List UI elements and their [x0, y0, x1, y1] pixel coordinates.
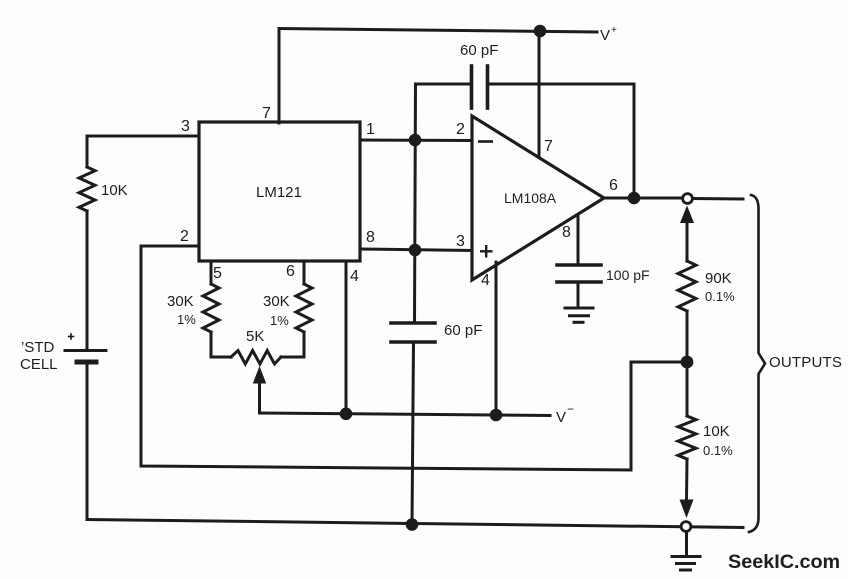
label V- — [556, 402, 574, 426]
wire LM121 pin5 lead — [210, 261, 213, 284]
arrow up (90K top) — [680, 206, 694, 262]
wire op-amp U2 pin4 — [495, 262, 498, 415]
svg-text:60 pF: 60 pF — [444, 322, 482, 339]
wire LM121 pin1 to op-amp inverting input — [360, 139, 472, 143]
svg-text:8: 8 — [366, 229, 375, 246]
op-amp plus sign — [480, 245, 493, 258]
wire LM121 pin6 lead — [303, 261, 306, 284]
svg-text:5K: 5K — [246, 328, 264, 345]
wire divider node to 10K — [686, 362, 689, 416]
arrow down (10K bottom) — [680, 500, 694, 519]
svg-text:10K: 10K — [101, 182, 128, 199]
svg-text:6: 6 — [609, 177, 618, 194]
wire LM121 pin3 to 10K — [87, 135, 199, 138]
svg-text:1%: 1% — [177, 312, 196, 327]
node pin1 junction dot — [409, 134, 422, 147]
resistor 10K 0.1% — [678, 416, 696, 459]
svg-text:100 pF: 100 pF — [606, 267, 650, 283]
resistor 90K 0.1% — [678, 261, 696, 311]
brace OUTPUTS — [749, 195, 765, 532]
svg-text:2: 2 — [180, 228, 189, 245]
svg-text:−: − — [567, 402, 574, 416]
svg-text:6: 6 — [286, 263, 295, 280]
preamp U1 LM121 body — [199, 122, 360, 261]
op-amp minus sign — [478, 140, 493, 143]
label STD CELL — [20, 339, 58, 373]
node pin8 junction dot — [409, 244, 422, 257]
wire feedback top right segment — [488, 84, 635, 198]
wire op-amp pin8 lead — [577, 215, 580, 265]
svg-text:LM108A: LM108A — [504, 190, 557, 206]
wire battery negative to bottom rail — [86, 362, 89, 520]
svg-text:0.1%: 0.1% — [703, 443, 733, 458]
svg-text:4: 4 — [350, 268, 359, 285]
resistor 10K (input, left) — [79, 136, 95, 350]
wire op-amp output pin6 — [604, 197, 681, 200]
node V+ junction dot — [534, 25, 547, 38]
capacitor 60pF (top, feedback) — [472, 66, 488, 108]
battery STD CELL — [65, 334, 106, 362]
ground (under 100pF) — [565, 308, 593, 322]
svg-text:LM121: LM121 — [256, 184, 302, 201]
svg-text:7: 7 — [262, 105, 271, 122]
wire bottom ground rail — [87, 520, 743, 528]
wire LM121 pin7 to V+ rail — [278, 29, 281, 124]
wire output to brace — [693, 197, 744, 201]
node op-amp pin4 junction dot — [490, 409, 503, 422]
node output terminal (open circle) — [683, 194, 693, 204]
label V+ — [600, 25, 617, 44]
svg-text:0.1%: 0.1% — [705, 289, 735, 304]
wire 90K to divider node — [686, 311, 689, 362]
svg-text:90K: 90K — [705, 270, 732, 287]
wire feedback left vertical — [415, 84, 416, 323]
svg-text:3: 3 — [456, 233, 465, 250]
wire 30K left to pot — [211, 332, 231, 357]
wire LM121 pin8 to op-amp non-inverting input — [360, 249, 472, 251]
resistor 30K 1% (right) — [296, 284, 312, 332]
wire feedback top left segment — [416, 83, 472, 86]
node output junction dot — [628, 192, 641, 205]
svg-text:’STD: ’STD — [21, 339, 55, 356]
wire LM121 pin4 — [345, 261, 348, 414]
capacitor 100pF — [557, 265, 601, 307]
op-amp U2 pin7 supply wire — [538, 31, 541, 157]
wire V- rail — [260, 413, 551, 416]
op-amp U2 LM108A body — [472, 116, 604, 280]
svg-text:60 pF: 60 pF — [460, 42, 498, 59]
svg-text:V: V — [600, 27, 610, 44]
wire 10K to arrow — [685, 459, 689, 500]
svg-text:7: 7 — [544, 138, 553, 155]
svg-text:30K: 30K — [167, 293, 194, 310]
node bottom output terminal (open circle) — [681, 522, 691, 532]
resistor 30K 1% (left) — [203, 284, 219, 332]
node LM121 pin4 junction dot — [340, 408, 353, 421]
svg-text:10K: 10K — [703, 423, 730, 440]
svg-text:1: 1 — [366, 121, 375, 138]
svg-text:5: 5 — [213, 265, 222, 282]
svg-text:V: V — [556, 409, 566, 426]
ground (bottom output) — [672, 532, 700, 570]
svg-text:2: 2 — [456, 121, 465, 138]
node bottom rail / 60pF cap junction dot — [406, 518, 419, 531]
pot wiper arrow — [253, 366, 266, 413]
wire LM121 pin2 sense feedback — [141, 246, 687, 470]
svg-text:OUTPUTS: OUTPUTS — [769, 354, 842, 371]
svg-text:1%: 1% — [270, 313, 289, 328]
svg-text:SeekIC.com: SeekIC.com — [728, 551, 840, 573]
wire pot to 30K right — [281, 332, 304, 357]
capacitor 60pF (lower) — [391, 323, 435, 525]
svg-text:4: 4 — [481, 272, 490, 289]
potentiometer 5K — [231, 351, 281, 365]
svg-text:3: 3 — [181, 118, 190, 135]
svg-text:30K: 30K — [263, 293, 290, 310]
wire top V+ rail — [279, 29, 597, 33]
svg-text:8: 8 — [562, 224, 571, 241]
node divider junction dot — [681, 356, 694, 369]
svg-text:CELL: CELL — [20, 356, 58, 373]
svg-text:+: + — [611, 25, 617, 36]
